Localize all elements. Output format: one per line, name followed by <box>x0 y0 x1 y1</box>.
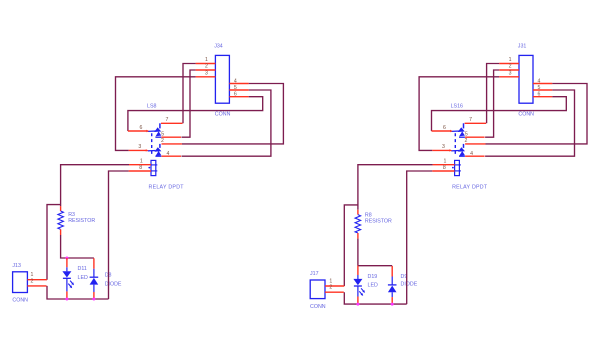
pin 6 of LS8 <box>128 130 147 132</box>
svg-text:5: 5 <box>465 132 468 138</box>
coil of LS16 <box>455 160 460 175</box>
wire relay LS8 pin 8 to bottom rail <box>109 171 129 299</box>
switch arm 2 lower contact of LS8 <box>156 151 162 156</box>
svg-text:4: 4 <box>470 151 473 157</box>
pin 4 of J34 <box>229 83 248 85</box>
svg-text:1: 1 <box>509 57 512 63</box>
pin 5 of LS16 <box>465 136 485 138</box>
switch arm 2 lower contact of LS16 <box>459 151 465 156</box>
pin 2 of J34 <box>196 69 216 71</box>
svg-text:RELAY DPDT: RELAY DPDT <box>452 185 488 191</box>
pin 4 of LS8 <box>162 155 182 157</box>
svg-text:4: 4 <box>537 79 540 85</box>
svg-text:LS16: LS16 <box>451 104 463 110</box>
pin 6 of J31 <box>533 96 552 98</box>
diode D9 <box>391 266 393 277</box>
bottom rail wire (left) <box>47 286 109 299</box>
svg-text:1: 1 <box>329 278 332 284</box>
svg-text:5: 5 <box>537 85 540 91</box>
wire J31.4 to relay LS16 pin 2 <box>486 84 588 144</box>
pin 6 of J34 <box>229 96 248 98</box>
LED D11 <box>66 258 68 267</box>
pin 1 of J17 <box>325 285 344 287</box>
switch arm 2 of LS8 <box>159 144 161 148</box>
switch arm 1 lower contact of LS16 <box>459 131 465 136</box>
connector J13 <box>13 272 28 293</box>
diode D8 <box>93 258 95 269</box>
pin 1 of LS16 <box>433 164 455 166</box>
svg-text:2: 2 <box>161 138 164 144</box>
svg-text:RESISTOR: RESISTOR <box>68 218 95 224</box>
coil of LS8 <box>151 160 156 175</box>
pin 4 of J31 <box>533 83 552 85</box>
svg-text:1: 1 <box>140 159 143 165</box>
pin 7 of LS16 <box>465 122 487 124</box>
switch arm 2 of LS16 <box>463 144 465 148</box>
switch arm 1 of LS16 <box>463 123 465 128</box>
svg-text:RESISTOR: RESISTOR <box>365 218 392 224</box>
wire J34.5 to relay LS8 pin 4 <box>182 90 271 156</box>
pin 7 of LS8 <box>161 122 183 124</box>
svg-text:RELAY DPDT: RELAY DPDT <box>149 185 185 191</box>
pin 2 of LS16 <box>465 143 485 145</box>
pin 5 of J31 <box>533 89 552 91</box>
svg-text:3: 3 <box>205 70 208 76</box>
wire J34.3 to relay LS8 pin 3 <box>116 77 196 151</box>
pin 1 of LS8 <box>129 164 151 166</box>
svg-text:CONN: CONN <box>215 111 231 117</box>
resistor R3 <box>60 206 62 211</box>
svg-text:D19: D19 <box>368 274 378 280</box>
mechanical link (dashed) of LS16 <box>454 133 456 155</box>
pin 5 of J34 <box>229 89 248 91</box>
svg-text:5: 5 <box>161 132 164 138</box>
junction dot at coil of LS16 <box>452 167 454 169</box>
svg-text:4: 4 <box>167 151 170 157</box>
svg-text:CONN: CONN <box>310 304 326 310</box>
svg-text:J31: J31 <box>518 43 527 49</box>
wire resistor R8 to LED D19 and diode D9 <box>358 239 392 266</box>
svg-text:6: 6 <box>537 92 540 98</box>
switch arm 1 lower contact of LS8 <box>156 131 162 136</box>
svg-text:LS8: LS8 <box>147 104 156 110</box>
svg-text:LED: LED <box>78 275 88 281</box>
svg-text:3: 3 <box>138 144 141 150</box>
pin 4 of LS16 <box>465 155 485 157</box>
svg-text:6: 6 <box>443 125 446 131</box>
mechanical link (dashed) of LS8 <box>151 133 153 155</box>
svg-text:1: 1 <box>205 57 208 63</box>
pin 1 of J34 <box>196 63 216 65</box>
junction dot at LED D11 bottom <box>65 298 68 301</box>
wire J31.3 to relay LS16 pin 3 <box>419 77 499 151</box>
wire relay LS8 pin 1 to resistor R3 <box>61 165 129 207</box>
LED D19 <box>357 266 359 275</box>
switch arm 1 of LS8 <box>159 123 161 128</box>
junction dot at LED D11 top <box>65 257 68 260</box>
wire J34.6 to relay LS8 pin 6 <box>128 97 263 131</box>
pin 3 of J34 <box>196 76 216 78</box>
connector J17 <box>310 280 325 299</box>
pin 8 of LS16 <box>432 170 454 172</box>
wire J31.5 to relay LS16 pin 4 <box>485 90 574 156</box>
pin 3 of LS16 <box>432 149 449 151</box>
svg-text:1: 1 <box>443 159 446 165</box>
wire resistor R3 to LED D11 and diode D8 <box>61 235 94 258</box>
pin 2 of LS8 <box>162 143 182 145</box>
wire J31.6 to relay LS16 pin 6 <box>432 97 567 131</box>
svg-text:DIODE: DIODE <box>105 281 122 287</box>
pin 3 of LS8 <box>129 149 146 151</box>
svg-text:2: 2 <box>30 278 33 284</box>
pin 3 of J31 <box>499 76 519 78</box>
wire J34.2 to relay LS8 pin 5 <box>182 70 196 137</box>
svg-text:D11: D11 <box>78 266 87 272</box>
LED arrows of D19 <box>361 288 364 292</box>
wire J34.1 to relay LS8 pin 7 <box>183 64 196 124</box>
svg-text:2: 2 <box>465 138 468 144</box>
wire J31.2 to relay LS16 pin 5 <box>485 70 499 137</box>
pin 6 of LS16 <box>432 130 451 132</box>
svg-text:LED: LED <box>368 283 378 289</box>
wire branch to J13 pin 1 <box>47 205 61 280</box>
svg-text:6: 6 <box>234 92 237 98</box>
svg-text:4: 4 <box>234 79 237 85</box>
svg-text:7: 7 <box>469 117 472 123</box>
svg-text:J17: J17 <box>310 271 319 277</box>
wire relay LS16 pin 1 to resistor R8 <box>358 165 433 210</box>
pin 1 of J13 <box>27 279 47 281</box>
svg-text:1: 1 <box>30 272 33 278</box>
svg-text:J13: J13 <box>12 263 21 269</box>
junction dot at coil of LS8 <box>148 167 150 169</box>
svg-text:3: 3 <box>442 144 445 150</box>
pin 8 of LS8 <box>129 170 151 172</box>
pin 1 of J31 <box>499 63 519 65</box>
svg-text:J34: J34 <box>214 43 223 49</box>
pin 5 of LS8 <box>162 136 182 138</box>
LED arrows of D11 <box>70 281 73 285</box>
connector J31 <box>519 55 533 103</box>
connector J34 <box>215 55 229 103</box>
svg-text:2: 2 <box>329 285 332 291</box>
svg-text:CONN: CONN <box>12 298 28 304</box>
junction dot at LED D19 bottom <box>356 303 359 306</box>
svg-text:2: 2 <box>205 64 208 70</box>
svg-text:DIODE: DIODE <box>401 282 418 288</box>
junction dot at diode D9 bottom <box>391 303 394 306</box>
wire J31.1 to relay LS16 pin 7 <box>487 64 500 124</box>
wire branch to J17 pin 1 <box>344 205 358 286</box>
svg-text:7: 7 <box>166 117 169 123</box>
pin 2 of J31 <box>499 69 519 71</box>
svg-text:5: 5 <box>234 85 237 91</box>
pin 2 of J17 <box>325 291 344 293</box>
svg-text:8: 8 <box>443 165 446 171</box>
junction dot at diode D8 bottom <box>92 298 95 301</box>
svg-text:2: 2 <box>509 64 512 70</box>
svg-text:8: 8 <box>139 165 142 171</box>
svg-text:3: 3 <box>509 70 512 76</box>
wire J34.4 to relay LS8 pin 2 <box>182 84 284 144</box>
pin 2 of J13 <box>27 285 46 287</box>
wire relay LS16 pin 8 to bottom rail <box>407 171 433 304</box>
svg-text:CONN: CONN <box>518 111 534 117</box>
resistor R8 <box>357 210 359 215</box>
bottom rail wire (right) <box>344 292 406 304</box>
svg-text:6: 6 <box>139 125 142 131</box>
